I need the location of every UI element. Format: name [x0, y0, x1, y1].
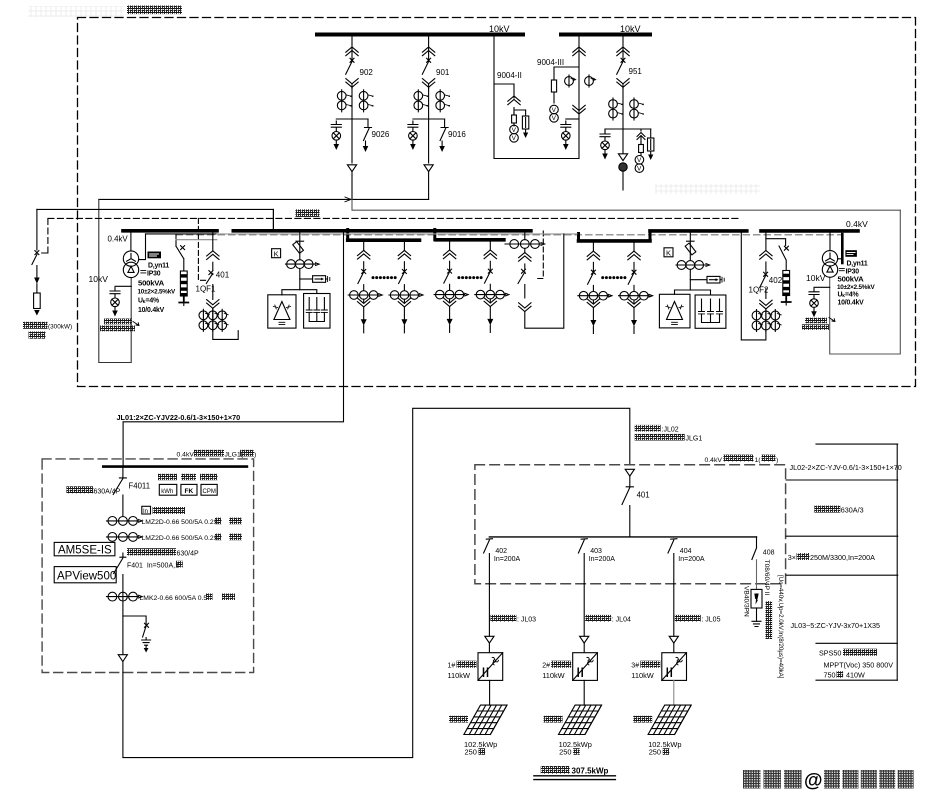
svg-text:9016: 9016 — [448, 130, 466, 139]
svg-text:630A/4P: 630A/4P — [94, 488, 121, 495]
cable marker JLG1 — [118, 655, 127, 662]
AM5SE-IS device box — [54, 542, 115, 555]
svg-text:9004-II: 9004-II — [497, 71, 522, 80]
902 cable head marker — [347, 165, 356, 172]
T2 live-line indicator DXN6 — [814, 286, 830, 288]
PV array 1 — [464, 705, 507, 734]
951 tap junction — [605, 129, 651, 154]
wire fuse tier left — [176, 239, 217, 241]
label DXN6-Q — [104, 319, 132, 325]
PV array 1 wire — [489, 680, 491, 705]
svg-text:10/0.4kV: 10/0.4kV — [138, 307, 165, 314]
wire 402 bottom loop — [741, 233, 766, 340]
svg-text:0.4kV: 0.4kV — [177, 451, 195, 458]
svg-text:10kV: 10kV — [89, 274, 109, 284]
inverter 3 — [662, 653, 687, 681]
svg-text:IP30: IP30 — [147, 271, 161, 278]
svg-text:JLG1: JLG1 — [686, 435, 703, 442]
902 live-line indicator branch — [331, 121, 341, 150]
svg-text:0.4kV: 0.4kV — [108, 234, 129, 243]
svg-text:110kW: 110kW — [448, 671, 470, 680]
bus link thin wire — [146, 233, 217, 235]
active filter APF box left — [268, 295, 296, 328]
busbar PT fuse branch left — [176, 235, 185, 271]
metering branch K left — [300, 278, 313, 280]
inverter 1 — [478, 653, 503, 681]
svg-text:9026: 9026 — [372, 130, 390, 139]
T2 spec text — [837, 261, 875, 307]
svg-text:[Uc=440v,Up=2.0kV,In(8/20µs)=4: [Uc=440v,Up=2.0kV,In(8/20µs)=40kA] — [777, 575, 784, 679]
incomer breaker 902 — [346, 37, 359, 89]
svg-text:902: 902 — [360, 68, 374, 77]
svg-text:1(: 1( — [755, 457, 762, 464]
svg-text:Uₖ=4%: Uₖ=4% — [838, 292, 859, 299]
outgoing feeder pair C2 — [619, 241, 653, 334]
svg-text:JL02-2×ZC-YJV-0.6/1-3×150+1×70: JL02-2×ZC-YJV-0.6/1-3×150+1×70 — [790, 463, 902, 472]
interlock dashed wire upper — [42, 218, 741, 253]
svg-text:Uₖ=4%: Uₖ=4% — [138, 297, 159, 304]
svg-text:VB40/3PN: VB40/3PN — [743, 586, 750, 617]
label PV array 3 — [633, 716, 652, 723]
JLG1 internal busbar — [103, 465, 247, 468]
CT row metering — [107, 517, 143, 526]
CT pair 902 left — [337, 90, 351, 112]
interlock terminal bar T2 — [841, 234, 844, 263]
0.4kV bus section 1 lower tiers — [348, 238, 504, 242]
svg-text:F401 In=500A,1: F401 In=500A,1 — [127, 562, 179, 569]
9004-II branch — [494, 84, 514, 98]
surge arrester 9004-II — [525, 110, 527, 116]
svg-text:2#: 2# — [542, 662, 550, 669]
0.4kV bus section 2 lower tier — [579, 239, 651, 243]
svg-text:: JL04: : JL04 — [612, 616, 631, 623]
10kV bus 2 — [561, 33, 650, 37]
PT fuse 9004-III — [551, 80, 556, 103]
svg-text:500kVA: 500kVA — [138, 278, 165, 287]
PV array 2 wire — [583, 680, 585, 705]
9004 live-line indicator branch — [566, 118, 579, 120]
svg-text:0.4kV: 0.4kV — [705, 457, 723, 464]
svg-text:JL03~5:ZC-YJV-3x70+1X35: JL03~5:ZC-YJV-3x70+1X35 — [791, 621, 881, 630]
PV incomer breaker 401/1QF1 — [206, 233, 219, 331]
svg-text:9004-III: 9004-III — [537, 58, 564, 67]
T1 spec text — [138, 262, 176, 314]
interlock drop to tie — [537, 231, 544, 279]
svg-text:500kVA: 500kVA — [838, 274, 865, 283]
svg-text:10kV: 10kV — [620, 24, 641, 34]
svg-text:FK: FK — [185, 488, 194, 495]
CT phi left on tie — [565, 75, 576, 87]
CT phi right on tie — [585, 75, 596, 87]
svg-text:In=200A: In=200A — [678, 556, 705, 563]
meter CPM box — [201, 484, 217, 495]
svg-text:K: K — [666, 249, 671, 258]
svg-text:MPPT(Voc) 350 800V: MPPT(Voc) 350 800V — [824, 661, 894, 670]
faint watermark top-left — [28, 6, 124, 17]
outgoing feeder pair B2 — [475, 240, 509, 333]
svg-text:10±2×2.5%kV: 10±2×2.5%kV — [138, 289, 176, 296]
svg-text:401: 401 — [216, 271, 230, 280]
voltage transformer 951 — [635, 156, 644, 173]
outgoing feeder pair C1 — [578, 241, 612, 334]
surge protective device — [751, 589, 762, 621]
10kV feed wire to T2 — [352, 199, 900, 210]
label PV breaker — [127, 548, 176, 555]
T1 nameplate badge — [148, 252, 162, 259]
svg-text:: JL03: : JL03 — [517, 616, 536, 623]
svg-text:LMK2-0.66 600/5A 0.5: LMK2-0.66 600/5A 0.5 — [140, 595, 208, 602]
CT pair 901 left — [414, 90, 428, 112]
bus tier connector left — [346, 230, 349, 241]
svg-text:901: 901 — [436, 68, 450, 77]
inverter feed JL04 — [583, 584, 585, 653]
svg-text:3#: 3# — [631, 662, 639, 669]
diesel tie drop to bus1 — [272, 209, 274, 229]
10kV bus 1 — [317, 33, 523, 37]
svg-text:402: 402 — [495, 548, 507, 555]
compensation branch K left — [293, 233, 304, 260]
diesel generator connector — [34, 284, 41, 309]
svg-text:250: 250 — [559, 748, 571, 757]
bus tie breaker — [518, 234, 564, 328]
total capacity label — [541, 766, 570, 774]
svg-text:D,yn11: D,yn11 — [847, 261, 868, 268]
svg-text:401: 401 — [637, 491, 650, 500]
label DXN6-Q right — [805, 318, 827, 324]
earthing switch 9016 — [440, 119, 448, 146]
svg-text:110kW: 110kW — [631, 671, 653, 680]
interlock dashed wire lower — [176, 234, 842, 236]
svg-text:): ) — [254, 451, 256, 458]
951 PT branch — [637, 129, 645, 145]
incomer breaker 901 — [422, 37, 435, 89]
CT row K right — [676, 261, 710, 270]
T2 nameplate badge — [845, 250, 857, 257]
svg-text:1QF1: 1QF1 — [196, 285, 217, 294]
label interlock 电气闭锁 — [296, 209, 320, 217]
grid-tie switch 401 — [625, 469, 634, 476]
PT cabinet 9004-III riser from bus2 — [578, 37, 580, 159]
label PV array 2 — [544, 716, 563, 723]
outgoing feeder pair B1 — [434, 240, 468, 333]
svg-text:951: 951 — [629, 67, 643, 76]
svg-text:In=200A: In=200A — [494, 556, 521, 563]
951 live-line indicator branch — [604, 129, 606, 133]
svg-text:10kV: 10kV — [489, 24, 510, 34]
svg-text:402: 402 — [769, 276, 783, 285]
spec table right border — [896, 444, 898, 680]
CT row load-control — [107, 533, 143, 542]
CT row K left — [286, 260, 320, 269]
svg-text:F4011: F4011 — [129, 482, 151, 491]
transformer T2 — [822, 233, 842, 278]
svg-text:410W: 410W — [846, 671, 865, 680]
label PV array 1 — [449, 716, 468, 723]
APView500 device box — [54, 567, 116, 583]
feeder breaker 951 — [617, 37, 630, 89]
svg-text:250M/3300,In=200A: 250M/3300,In=200A — [810, 553, 875, 562]
SPD branch 408 — [752, 537, 757, 590]
wire 401 bottom loop — [213, 331, 238, 340]
distribution room dashed enclosure — [78, 18, 916, 387]
CT cluster 402 — [752, 310, 781, 332]
CT pair 951 left — [609, 98, 623, 120]
interlock drop to 401 — [198, 218, 207, 280]
diesel generator wire — [37, 209, 274, 229]
capacitor bank box right — [695, 295, 726, 328]
table row isolator spec — [814, 506, 840, 513]
label diesel generator 300kW — [23, 322, 48, 329]
svg-text:0.4kV: 0.4kV — [846, 219, 868, 229]
surge arrester 951 — [650, 129, 652, 138]
earthing switch 9026 — [364, 119, 372, 146]
svg-text:408: 408 — [763, 550, 775, 557]
watermark souhu — [743, 770, 761, 789]
svg-text:kWh: kWh — [161, 489, 173, 495]
bus tie CT row — [505, 231, 545, 249]
meter kWh box — [159, 484, 177, 495]
svg-text:AM5SE-IS: AM5SE-IS — [58, 545, 112, 557]
voltage transformer 9004-III — [550, 105, 559, 122]
cable JL02 wire — [123, 408, 630, 757]
wire 901 down — [428, 172, 430, 200]
voltage transformer 9004-II — [510, 125, 519, 142]
svg-text:: JL05: : JL05 — [701, 616, 720, 623]
K box left — [272, 249, 281, 258]
CT pair 951 right — [630, 98, 644, 120]
svg-text:307.5kWp: 307.5kWp — [572, 767, 609, 776]
0.4kV bus section 1 — [123, 229, 531, 233]
T1 10kV cable loop — [99, 199, 131, 362]
junction arrow at 902 — [345, 197, 351, 202]
svg-text:250: 250 — [465, 748, 477, 757]
K box right — [664, 248, 673, 257]
svg-text:404: 404 — [680, 548, 692, 555]
svg-text:LMZ2D-0.66 500/5A 0.2S: LMZ2D-0.66 500/5A 0.2S — [142, 519, 219, 526]
svg-text:LMZ2D-0.66 500/5A 0.2S: LMZ2D-0.66 500/5A 0.2S — [142, 535, 219, 542]
951 cable termination — [618, 154, 627, 161]
diesel generator switch — [32, 209, 39, 277]
label isolator 630A/4P — [66, 486, 93, 493]
combiner busbar — [489, 536, 756, 538]
svg-text:10/0.4kV: 10/0.4kV — [838, 299, 865, 306]
PT cabinet 9004-II riser from bus1 — [494, 37, 579, 159]
busbar PT fuse branch right — [766, 239, 789, 271]
svg-text:3×: 3× — [788, 553, 796, 562]
PV array 3 wire — [673, 680, 675, 705]
svg-text:250: 250 — [649, 748, 661, 757]
svg-text:K: K — [274, 249, 279, 258]
dots pair B — [457, 276, 482, 279]
svg-text:JL01:2×ZC-YJV22-0.6/1-3×150+1×: JL01:2×ZC-YJV22-0.6/1-3×150+1×70 — [117, 413, 241, 422]
CT pair 901 right — [436, 90, 450, 112]
outgoing feeder pair A1 — [348, 240, 382, 333]
faint watermark mid — [655, 184, 760, 194]
svg-text:In: In — [143, 509, 148, 515]
T1 live-line indicator DXN6 — [115, 285, 131, 287]
branch switch 402 — [484, 539, 493, 584]
anti-islanding label — [142, 506, 151, 514]
cable JL01 wire — [123, 233, 343, 466]
svg-text:10±2×2.5%kV: 10±2×2.5%kV — [837, 284, 875, 291]
CT cluster 401 — [199, 309, 228, 331]
9004-III branch — [554, 67, 579, 80]
svg-text:CPM: CPM — [203, 489, 216, 495]
spec table rules — [786, 444, 898, 680]
inverter 2 — [573, 653, 598, 681]
CT row measurement — [107, 592, 143, 601]
compensation branch K right — [685, 233, 696, 261]
capacitor bank box left — [304, 294, 330, 329]
CT pair 902 right — [359, 90, 373, 112]
wire 951 outgoing — [622, 171, 624, 190]
svg-text:SPS50: SPS50 — [819, 648, 841, 657]
split to filter boxes left — [282, 290, 317, 295]
901 tap junction — [413, 119, 445, 163]
active filter APF box right — [659, 294, 690, 328]
dots pair A — [372, 276, 397, 279]
inverter feed JL03 — [488, 584, 490, 653]
svg-text:10kV: 10kV — [806, 273, 826, 283]
breaker F401 — [114, 553, 126, 655]
svg-text:1#: 1# — [448, 662, 456, 669]
svg-text:): ) — [776, 457, 778, 464]
svg-text:APView500: APView500 — [57, 571, 116, 583]
901 live-line indicator branch — [408, 121, 418, 150]
svg-text:630A/3: 630A/3 — [841, 506, 864, 515]
svg-text:D,yn11: D,yn11 — [148, 262, 169, 269]
10kV node wire 902-901 — [99, 198, 429, 200]
svg-text:(300kW): (300kW) — [48, 323, 72, 330]
PT fuse 9004-II — [512, 112, 517, 126]
svg-text:403: 403 — [590, 548, 602, 555]
feeder breaker 402/1QF2 — [760, 233, 772, 332]
branch switch 403 — [578, 539, 587, 584]
AC combiner box 1 dashed enclosure — [475, 465, 786, 584]
dots pair C — [601, 276, 626, 279]
svg-text:@: @ — [804, 771, 823, 792]
svg-text:T08/60/4P II: T08/60/4P II — [763, 560, 770, 596]
title 配送中心配电室 — [127, 6, 182, 15]
earthing switch JLG1 — [123, 616, 149, 639]
transformer T1 — [123, 233, 145, 278]
isolator F4011 — [113, 467, 126, 517]
bus tier connector right — [579, 231, 651, 241]
902 tap junction — [336, 119, 368, 163]
0.4kV bus section 2 — [650, 229, 858, 233]
svg-text:1QF2: 1QF2 — [749, 286, 770, 295]
svg-text::JL02: :JL02 — [662, 426, 679, 433]
split to filter boxes right — [675, 290, 711, 295]
metering branch K right — [690, 279, 707, 281]
PV metering cabinet JLG1 dashed box — [42, 459, 254, 673]
outgoing feeder pair A2 — [389, 240, 423, 333]
svg-text:630/4P: 630/4P — [177, 550, 200, 557]
901 cable head marker — [424, 165, 433, 172]
inverter feed JL05 — [673, 584, 675, 653]
label JL02 cable — [635, 425, 661, 432]
bus tier connector mid — [433, 230, 436, 240]
meter FK box — [181, 484, 197, 495]
svg-text:In=200A: In=200A — [589, 556, 616, 563]
svg-text:750: 750 — [824, 671, 836, 680]
T2 10kV cable loop — [830, 210, 901, 354]
wire 902 down — [351, 172, 353, 200]
svg-text:110kW: 110kW — [542, 671, 564, 680]
PV array 2 — [559, 705, 602, 734]
PV array 3 — [648, 705, 691, 734]
branch switch 404 — [668, 539, 677, 584]
